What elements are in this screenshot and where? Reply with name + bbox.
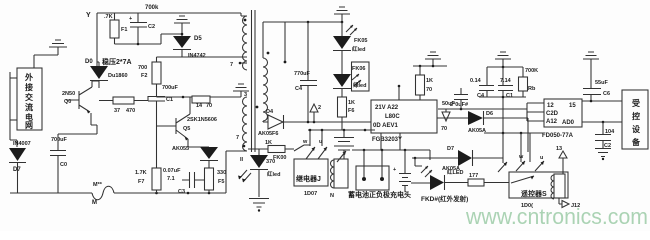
svg-text:红led: 红led [267,170,280,178]
svg-text:A12: A12 [546,119,558,125]
svg-text:www.cntronics.com: www.cntronics.com [465,204,648,229]
wire relay S feed row [484,132,545,134]
transformer T1 secondary winding [263,58,268,121]
svg-text:F1: F1 [121,27,127,33]
ground G1 top-left [34,40,67,68]
svg-text:330: 330 [217,170,226,176]
svg-text:0.07uF: 0.07uF [163,168,181,174]
svg-text:7: 7 [236,135,239,141]
wire secondary top rail [263,21,342,23]
resistor Rb 700Z [519,67,539,97]
diode D7b [412,146,503,172]
svg-text:F7: F7 [138,179,144,185]
ground G8 [495,52,511,67]
resistor F5 330 [205,168,227,193]
diode AK055 [172,146,218,168]
battery connector box [356,150,389,190]
diode D5 IN4742 [173,36,206,59]
svg-text:接: 接 [25,82,33,92]
svg-text:C4: C4 [295,86,303,92]
wire IC2 out bottom [582,121,622,123]
svg-text:w: w [518,154,524,160]
svg-text:IN4007: IN4007 [13,141,31,147]
svg-text:+: + [129,16,132,22]
svg-text:177: 177 [469,173,478,179]
svg-text:FKD#(红外发射): FKD#(红外发射) [421,194,468,203]
ground G9 [583,52,599,88]
svg-text:遥控器S: 遥控器S [521,189,547,198]
svg-text:设: 设 [632,124,640,134]
wire IC2 out top [582,100,622,102]
transformer T1 primary winding lower [243,97,248,151]
relay S contact 1 [498,133,507,172]
battery B2 small [393,150,430,192]
svg-text:D6: D6 [486,111,493,117]
connector J12 arrow right [559,198,580,209]
svg-text:D7: D7 [13,167,21,173]
ground G10 [595,149,611,157]
wire node row y44 [115,34,183,44]
svg-text:M**: M** [93,182,103,188]
resistor 177 [468,173,509,186]
svg-text:D7: D7 [447,146,454,152]
svg-text:F5: F5 [218,179,224,185]
wire IC1 top stub [398,86,400,100]
svg-text:C1: C1 [166,97,173,103]
svg-text:C2: C2 [148,24,155,30]
svg-text:C6: C6 [603,91,610,97]
ground G7 [425,52,441,66]
diode D6 [437,111,528,134]
load box 受控设备 [622,90,648,149]
svg-text:700uF: 700uF [162,85,179,91]
svg-text:蓄电池正负极充电头: 蓄电池正负极充电头 [348,190,411,199]
transformer tap stub [241,62,247,64]
wire top rail [97,12,241,14]
switch contact to relay [294,145,310,151]
svg-text:红led: 红led [352,45,365,53]
resistor 1# 70 collector row [157,96,242,109]
opto outline box [352,62,370,91]
svg-text:继电器J: 继电器J [296,174,321,183]
capacitor C3 0.07uF [163,168,205,195]
svg-text:0D AEV1: 0D AEV1 [373,123,398,129]
svg-text:D4: D4 [266,109,274,115]
wire secondary aux lead [284,22,286,62]
svg-text:C2D: C2D [546,111,559,117]
resistor F2 700 [138,57,161,96]
capacitor C2 [129,13,155,44]
svg-text:L80C: L80C [385,114,400,120]
wire bottom rail mid [114,192,226,194]
svg-text:N: N [330,193,334,199]
svg-text:2: 2 [318,105,321,111]
LED FKD infrared [421,166,468,190]
svg-text:1K: 1K [426,78,433,84]
wire D6 drop [527,118,529,152]
relay J box [294,159,328,186]
relay S contact 2 [516,133,525,171]
svg-text:+: + [393,167,396,173]
svg-text:外: 外 [25,72,33,82]
ground G4 [233,84,249,97]
svg-text:稳压2*7A: 稳压2*7A [102,57,132,66]
wire bus B to IC2 [438,103,527,121]
AC input box 外接交流电网 [17,68,42,130]
transformer T1 primary winding upper [241,13,247,16]
svg-text:Rb: Rb [528,86,536,92]
svg-text:Q5: Q5 [183,126,190,132]
relay S box [509,172,568,198]
wire IC1 top feeds [412,65,414,67]
svg-text:700uF: 700uF [51,137,68,143]
resistor 1K 370 secondary row [248,140,294,165]
svg-text:15: 15 [569,103,576,109]
svg-text:备: 备 [631,137,641,147]
capacitor C4 770uF [294,21,317,122]
svg-text:7.1: 7.1 [167,176,175,182]
svg-text:2N50: 2N50 [62,91,75,97]
svg-text:FK06: FK06 [352,66,365,72]
fusible squiggle M [92,186,114,200]
svg-text:2SK1N5606: 2SK1N5606 [187,117,217,123]
svg-text:1D07: 1D07 [304,191,317,197]
wire battery box feed [352,150,430,160]
capacitor 55uF C6 [583,80,610,101]
wire top right bus A [413,65,447,67]
svg-text:70: 70 [441,126,447,132]
svg-text:F2: F2 [141,73,147,79]
svg-text:.7K: .7K [104,14,113,20]
svg-text:u: u [540,155,543,161]
svg-text:C0: C0 [60,162,67,168]
svg-text:AK055: AK055 [172,146,189,152]
svg-text:绿led: 绿led [353,81,366,89]
svg-text:D0: D0 [85,59,93,65]
diode D7 IN4007 [9,141,31,193]
wire bottom left rail [10,192,92,194]
svg-text:37: 37 [114,108,120,114]
wire IC1 bottom pins [381,133,400,150]
resistor R horizontal 37 470 [99,96,148,114]
svg-text:1.7K: 1.7K [135,170,147,176]
transistor Q5 2SK1N5606 [157,97,217,147]
ground G2 above D5 [174,16,190,36]
svg-text:14: 14 [196,103,203,109]
svg-text:控: 控 [632,111,640,121]
wire primary bottom to rail [226,151,247,193]
LED FK06 green [333,51,366,89]
svg-text:C1: C1 [506,93,513,99]
svg-text:C3: C3 [178,189,185,195]
svg-text:FK00: FK00 [273,155,286,161]
wire top right bus C [487,66,523,68]
zener D0 stabilivolt [85,57,132,88]
svg-text:交: 交 [25,92,33,102]
svg-text:流: 流 [25,102,33,112]
svg-text:7: 7 [230,62,233,68]
ground G5 under FK00 [249,199,269,208]
resistor 1K 70 vertical [416,66,434,100]
svg-text:700k: 700k [145,5,159,11]
capacitor 50uF [442,88,468,109]
wire relay feed row [308,129,375,131]
relay J contacts [302,130,346,162]
LED FK05 red [333,22,367,53]
svg-text:700: 700 [138,65,147,71]
svg-text:50uF: 50uF [442,101,455,107]
wire left input rail [10,72,17,147]
svg-text:70: 70 [206,103,212,109]
svg-text:3: 3 [244,92,247,98]
capacitor C1 700uF [148,85,179,168]
diode D4 [258,109,371,137]
svg-text:II: II [240,157,244,163]
svg-text:u: u [319,139,322,145]
svg-text:7.14: 7.14 [500,78,512,84]
svg-text:21V A22: 21V A22 [375,105,399,111]
wire stub box left top [10,77,17,79]
svg-text:D5: D5 [194,36,202,42]
connector 13 arrow up [556,146,567,174]
svg-text:Y: Y [86,12,91,19]
resistor F6 1K [338,89,356,130]
svg-text:55uF: 55uF [595,80,608,86]
svg-text:FD050-77A: FD050-77A [542,133,574,139]
svg-text:M: M [92,200,97,206]
connector J0 arrow down [441,109,450,132]
connector J2 arrow up [310,104,321,123]
svg-text:FK05: FK05 [354,38,367,44]
wire D5 bottom row [157,56,248,58]
LED FK00 red [238,155,286,197]
svg-text:70: 70 [426,87,432,93]
svg-text:0.14: 0.14 [470,78,482,84]
svg-text:104: 104 [605,129,615,135]
capacitor C8 0.14 [470,67,494,99]
resistor R.7K [104,13,127,44]
ground G3 top mid [334,7,350,22]
svg-text:w: w [302,139,308,145]
svg-text:700K: 700K [525,68,538,74]
svg-text:1K: 1K [348,100,355,106]
capacitor C9 0.14 [498,67,513,99]
svg-text:470: 470 [126,108,135,114]
capacitor C2 104 [595,122,615,149]
transistor Q0 [62,81,99,125]
svg-text:网: 网 [25,121,33,130]
svg-text:13: 13 [556,146,562,152]
relay S coil [551,174,565,199]
svg-text:AK05F6: AK05F6 [258,131,278,137]
svg-text:F6: F6 [348,108,354,114]
svg-text:FGB3203Y: FGB3203Y [372,137,402,143]
IC2 regulator box [527,99,582,139]
capacitor C0 700uF [50,134,68,193]
svg-text:AK05A: AK05A [442,166,460,172]
svg-text:Du1860: Du1860 [108,73,128,79]
svg-text:12: 12 [547,103,554,109]
svg-text:AD0: AD0 [562,120,575,126]
resistor F7 1.7K [135,168,161,193]
svg-text:受: 受 [632,98,640,108]
svg-text:IN4742: IN4742 [188,53,206,59]
battery pack cells [330,130,354,199]
wire caps bottom bus [479,97,526,133]
wire C0 top to Q0 node [58,125,97,134]
wire stub box left bottom [10,119,17,121]
relay S contact 3 [530,133,544,171]
IC1 controller box [371,100,437,143]
svg-text:AK05A: AK05A [468,128,486,134]
svg-text:C4: C4 [477,93,485,99]
transformer core [252,10,256,152]
